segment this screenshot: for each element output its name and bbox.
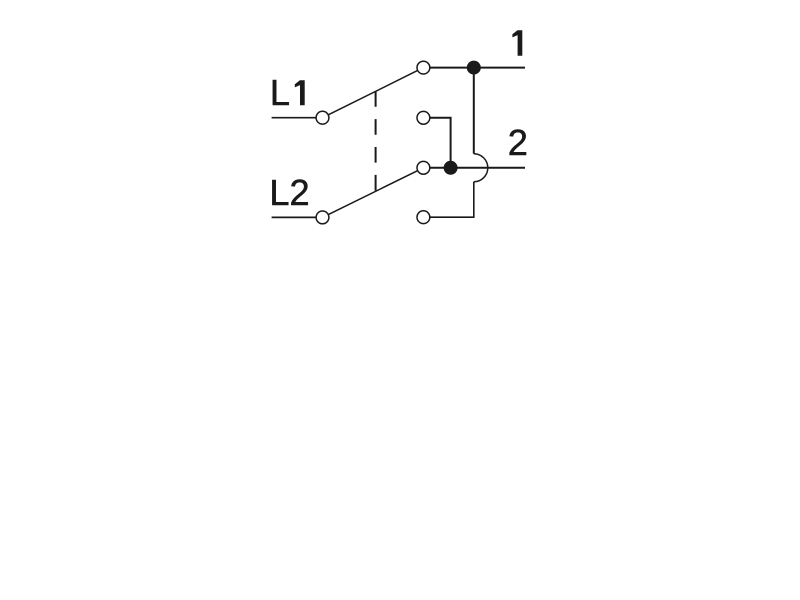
wire contact 2 output <box>423 167 525 169</box>
terminal contact row4 <box>417 211 430 224</box>
mechanical linkage (dashed) <box>375 91 377 190</box>
terminal contact row1 <box>417 61 430 74</box>
wire jog terminal row2 to junction <box>423 118 450 168</box>
wire L1 lead <box>272 117 323 119</box>
wire contact 1 output <box>423 67 525 69</box>
junction node J2 <box>444 161 458 175</box>
switch lever pole 1 <box>323 68 424 118</box>
svg-text:L: L <box>270 72 290 113</box>
junction node J1 <box>467 61 481 75</box>
terminal L2 pole <box>316 211 329 224</box>
svg-text:L2: L2 <box>269 172 309 213</box>
wire vertical below hop to row4 <box>423 182 473 217</box>
label L1 <box>270 72 305 113</box>
terminal contact row2 <box>417 111 430 124</box>
switch lever pole 2 <box>323 168 424 218</box>
svg-text:2: 2 <box>508 122 528 163</box>
label 1 <box>512 30 522 56</box>
terminal L1 pole <box>316 111 329 124</box>
wire hop over contact-2 wire <box>474 154 488 182</box>
wire L2 lead <box>272 216 323 218</box>
terminal contact row3 <box>417 161 430 174</box>
wire vertical from junction 1 <box>473 68 475 154</box>
